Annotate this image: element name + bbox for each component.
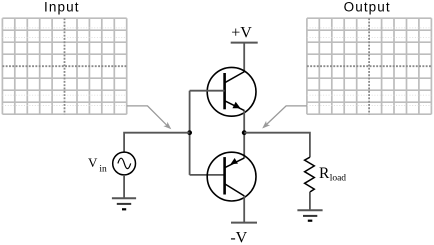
ground (right) (297, 210, 322, 220)
transistor Q1 (NPN, top) (207, 67, 256, 116)
probe arrow from Output scope (262, 106, 307, 129)
ground (left) (112, 198, 136, 209)
-V rail (231, 222, 257, 224)
svg-text:+V: +V (231, 25, 252, 42)
wire Vin to input junction (124, 133, 190, 153)
svg-text:Output: Output (344, 0, 391, 15)
svg-text:R: R (319, 165, 330, 182)
node: output junction (242, 130, 247, 135)
collector wire Q2 to -V (243, 196, 245, 223)
svg-text:in: in (99, 165, 107, 175)
svg-text:load: load (330, 174, 347, 184)
wire Rload to ground (309, 192, 311, 210)
source Vin (113, 152, 136, 175)
wire +V to Q1 collector (243, 43, 245, 72)
transistor Q2 (PNP, bottom) (207, 152, 256, 201)
resistor Rload (305, 157, 315, 192)
probe arrow from Input scope (127, 106, 172, 129)
base wire Q2 (190, 174, 225, 176)
+V rail (231, 42, 258, 44)
base bus wire (189, 91, 191, 175)
svg-text:V: V (88, 155, 98, 170)
svg-text:-V: -V (230, 229, 247, 245)
wire output junction to Rload (244, 133, 310, 158)
node: input junction (187, 130, 192, 135)
emitter wire Q1 to Q2 (243, 111, 245, 158)
base wire Q1 (190, 90, 225, 92)
input oscilloscope graticule (2, 18, 126, 114)
svg-text:Input: Input (44, 0, 80, 15)
output oscilloscope graticule (307, 18, 432, 114)
wire Vin to ground (123, 175, 125, 198)
